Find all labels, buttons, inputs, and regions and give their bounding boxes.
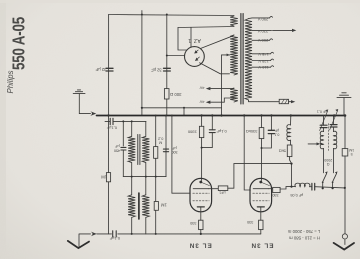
- svg-text:Philips: Philips: [6, 70, 15, 93]
- switch S1b: [333, 174, 337, 182]
- wire tap 200V: [252, 39, 270, 41]
- wire B+ rail top: [109, 15, 234, 16]
- svg-text:300: 300: [171, 150, 177, 154]
- node tap hook 250V: [270, 16, 273, 17]
- node center tap arrowhead: [227, 54, 230, 57]
- svg-text:32 µF: 32 µF: [95, 67, 106, 72]
- trimmer capacitor CT1: [320, 125, 327, 127]
- component L1 hf choke: [218, 186, 228, 191]
- wire V1 plate to riser: [228, 164, 292, 189]
- svg-text:µF: µF: [114, 144, 119, 148]
- wire L3 L4 bottom leads: [324, 149, 334, 173]
- svg-text:32 µF: 32 µF: [151, 68, 162, 73]
- wire tone line to switches: [310, 187, 344, 188]
- svg-text:Ω: Ω: [327, 162, 330, 166]
- svg-text:µF1: µF1: [219, 190, 225, 194]
- capacitor C1 32uF reservoir: [106, 68, 113, 71]
- wire RC chain drop x155.7 x166: [156, 116, 166, 234]
- switch S1a: [323, 174, 327, 182]
- resistor R2 1M: [106, 173, 110, 182]
- capacitor C2 32uF smoothing: [164, 68, 171, 71]
- resistor R10 5k: [287, 145, 292, 157]
- wire R6 leads: [261, 116, 263, 149]
- wire left B+ drop: [108, 15, 110, 116]
- transformer T2 IF left winding: [128, 136, 135, 162]
- svg-text:µF 0,05: µF 0,05: [290, 193, 303, 197]
- svg-text:EL 3N: EL 3N: [189, 242, 212, 249]
- wire V1 cathode leads: [200, 212, 202, 234]
- transformer T3 osc right winding: [142, 195, 149, 218]
- wire V2 top cap lead: [261, 148, 263, 181]
- wire tap arrow into L3: [308, 143, 317, 145]
- wire heater aux horizontal y108: [142, 107, 222, 109]
- resistor R1 300 ohm bleeder: [164, 89, 169, 99]
- wire cathode bottom line: [97, 233, 261, 235]
- wire AZ1 box vertical: [178, 28, 186, 51]
- wire node line y176.6: [123, 176, 166, 178]
- wire mains arrow lower: [289, 101, 293, 103]
- transformer T1 secondary S1 4V AZ1: [230, 16, 238, 26]
- svg-text:0,1µF: 0,1µF: [109, 236, 120, 241]
- svg-text:550 A-05: 550 A-05: [10, 17, 29, 70]
- tube V2 internals: [253, 181, 270, 212]
- svg-text:0,2: 0,2: [158, 136, 163, 140]
- inductor L3 tuning coil a: [320, 131, 323, 149]
- wire V2 cathode leads: [260, 212, 262, 234]
- svg-text:0,1µF: 0,1µF: [216, 129, 227, 134]
- resistor R8 330 cathode V1: [199, 220, 203, 229]
- capacitor C5 300: [163, 149, 168, 152]
- wire V1 top cap lead: [201, 148, 203, 181]
- inductor L4 tuning coil b: [334, 131, 337, 149]
- svg-text:330kΩ: 330kΩ: [246, 129, 258, 134]
- svg-text:1M: 1M: [349, 148, 354, 152]
- transformer T1 secondary S3 4V heaters: [230, 88, 238, 102]
- svg-text:250 V: 250 V: [257, 17, 268, 22]
- antenna symbol top right: [337, 93, 351, 98]
- transformer T3 core: [138, 193, 140, 219]
- wire anode choke branch x271.4 spare: [290, 116, 292, 126]
- transformer T2 IF right winding: [142, 136, 149, 162]
- svg-text:110 V: 110 V: [258, 65, 268, 70]
- chassis ground arrow bottom-right: [334, 243, 354, 250]
- svg-text:L = 750 - 2000 m: L = 750 - 2000 m: [287, 229, 320, 234]
- transformer T1 secondary S2 HV winding: [230, 35, 238, 75]
- wire HV center tap: [222, 55, 230, 116]
- tube V1 internals: [193, 181, 210, 212]
- resistor R3 0.2M: [154, 147, 158, 159]
- capacitor C3 0.1uF series: [110, 118, 113, 124]
- wire AZ1 plate diagonal to HV top: [201, 36, 233, 48]
- wire cap450 branch: [122, 121, 124, 146]
- wire tap 250V: [249, 17, 270, 20]
- wire C7 leads: [262, 116, 272, 149]
- wire heater 4V line upper: [211, 88, 235, 90]
- wire AZ1 plate diagonal to HV bottom: [200, 63, 230, 74]
- wire tap 220V: [252, 29, 272, 31]
- svg-text:450: 450: [114, 149, 120, 153]
- wire grid line y121: [105, 120, 146, 122]
- capacitor C8 0.1uF bottom: [113, 231, 117, 237]
- tube V2 EL3N envelope: [250, 178, 272, 211]
- resistor R5 3300 screen: [199, 126, 203, 137]
- wire ground bus (thick): [97, 115, 346, 117]
- svg-text:0,1: 0,1: [274, 132, 279, 136]
- svg-text:330: 330: [247, 220, 253, 224]
- wire CT leads from bus: [324, 116, 334, 126]
- node arrow into bus left: [90, 111, 96, 116]
- wire choke drop x167: [166, 15, 168, 116]
- wire R5 leads: [201, 116, 203, 148]
- wire T3 top leads: [132, 177, 146, 195]
- resistor R4 1M: [154, 202, 158, 211]
- wire coupling line drop: [291, 164, 293, 187]
- svg-text:125 V: 125 V: [258, 59, 269, 64]
- capacitor C7 0.1uF: [268, 130, 274, 133]
- wire grid drop x244 to V2: [244, 116, 250, 191]
- wire V2 plate out: [269, 188, 273, 190]
- wire AZ1 left filament stub: [167, 55, 185, 57]
- transformer T1 core: [241, 14, 243, 105]
- svg-text:330: 330: [272, 193, 278, 197]
- wire tap 110V: [252, 66, 271, 68]
- svg-text:1M: 1M: [101, 174, 107, 179]
- svg-text:4V: 4V: [199, 86, 204, 91]
- resistor R6 330k screen 2: [259, 128, 264, 139]
- wire heater 4V line lower: [211, 98, 235, 102]
- tube U1 AZ1 rectifier envelope: [185, 47, 205, 67]
- svg-text:0,1µF: 0,1µF: [106, 126, 117, 131]
- svg-text:145 V: 145 V: [258, 52, 269, 57]
- svg-text:µF: µF: [171, 146, 176, 150]
- resistor R9 330 cathode V2: [259, 220, 263, 229]
- wire T2 bottom leads: [132, 163, 146, 177]
- svg-text:300 Ω: 300 Ω: [170, 92, 181, 97]
- tube U1 AZ1 anode arrows: [195, 50, 200, 60]
- svg-text:EL 3N: EL 3N: [251, 242, 274, 249]
- wire mains arrow 220V: [273, 29, 294, 31]
- wire chassis stem bottom-left: [79, 234, 91, 247]
- trimmer capacitor CT2: [330, 125, 337, 127]
- wire AVC drop x108.5: [108, 116, 110, 234]
- svg-text:200 V: 200 V: [257, 38, 268, 43]
- wire AZ1 top pin: [190, 28, 192, 48]
- wire gang dashed link: [328, 124, 330, 151]
- capacitor C6 0.1uF: [209, 130, 215, 133]
- svg-text:1M: 1M: [160, 202, 166, 207]
- svg-text:3300: 3300: [187, 129, 197, 134]
- wire grid drop x172 to V1: [172, 116, 190, 194]
- svg-text:µF 0,1: µF 0,1: [317, 109, 327, 113]
- resistor R11 speaker branch: [342, 149, 348, 156]
- svg-text:220 V: 220 V: [257, 29, 268, 34]
- wire ground to bus: [79, 94, 90, 114]
- chassis ground arrow bottom-left: [68, 241, 89, 248]
- wire plate to tone chain: [280, 187, 295, 189]
- wire choke to R10 to coupling: [290, 140, 292, 163]
- capacitor C4 450pF: [121, 147, 126, 150]
- svg-text:AZ 1: AZ 1: [188, 37, 201, 43]
- transformer T2 core: [138, 135, 140, 165]
- svg-text:5: 5: [351, 152, 353, 156]
- wire filament link rail: [178, 27, 234, 28]
- svg-text:4V: 4V: [199, 99, 204, 104]
- wire tap 145V: [252, 53, 271, 55]
- ground symbol top-left: [73, 90, 85, 94]
- svg-text:M: M: [159, 140, 162, 144]
- wire stub to bus at 184: [183, 108, 185, 116]
- connector loop on right stem: [344, 116, 346, 245]
- transformer T1 primary winding: [245, 19, 252, 100]
- svg-text:5kΩ: 5kΩ: [279, 148, 286, 153]
- wire T3 bottom leads: [132, 217, 146, 234]
- node arrow into bottom line: [91, 232, 97, 237]
- wire tap 125V: [252, 60, 271, 62]
- resistor R7 330 plate stopper: [273, 187, 280, 192]
- inductor L2 choke: [287, 125, 291, 141]
- capacitor C9 tone series: [312, 183, 315, 190]
- wire tone line coil: [295, 183, 310, 187]
- fuse F1: [279, 99, 288, 103]
- wire V1 plate out: [209, 188, 219, 190]
- wire T2 top leads: [132, 121, 146, 136]
- wire primary bottom to fuse: [249, 100, 280, 102]
- tube V1 EL3N envelope: [190, 178, 212, 211]
- svg-text:330: 330: [190, 221, 196, 225]
- wire C6 leads: [202, 116, 213, 148]
- wire S2 top lead: [232, 35, 234, 36]
- transformer T3 osc left winding: [128, 195, 135, 218]
- svg-text:H = 210 - 580 m: H = 210 - 580 m: [289, 236, 320, 241]
- wire heater aux vertical x142: [141, 11, 143, 116]
- svg-text:2000: 2000: [324, 158, 332, 162]
